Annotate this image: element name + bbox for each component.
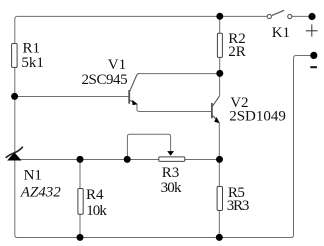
svg-text:5k1: 5k1 bbox=[21, 55, 44, 71]
svg-text:30k: 30k bbox=[161, 180, 182, 196]
svg-text:R3: R3 bbox=[162, 165, 180, 181]
svg-text:2R: 2R bbox=[228, 44, 246, 60]
svg-text:N1: N1 bbox=[24, 167, 42, 183]
svg-text:2SD1049: 2SD1049 bbox=[229, 109, 286, 125]
svg-text:K1: K1 bbox=[272, 25, 290, 41]
svg-text:R4: R4 bbox=[86, 187, 104, 203]
svg-text:2SC945: 2SC945 bbox=[82, 72, 128, 88]
svg-text:10k: 10k bbox=[86, 203, 107, 219]
svg-text:3R3: 3R3 bbox=[227, 198, 249, 214]
svg-text:V1: V1 bbox=[108, 57, 126, 73]
svg-text:AZ432: AZ432 bbox=[20, 184, 62, 200]
